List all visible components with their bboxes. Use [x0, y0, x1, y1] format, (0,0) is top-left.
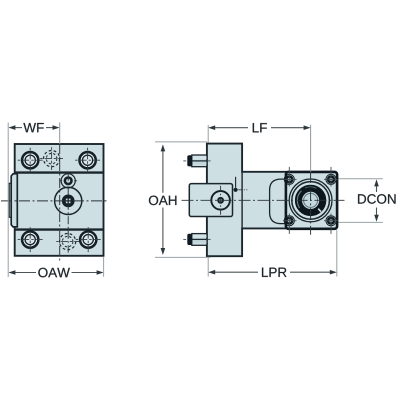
left rail tab (main): [11, 174, 17, 227]
boss axis centerline: [67, 173, 69, 253]
phantom hole bottom-center (dashed): [56, 234, 79, 250]
clamp block: [189, 184, 232, 217]
dimension DCON: [339, 179, 396, 223]
dimension OAH: [147, 142, 211, 258]
clamp screw small: [59, 174, 77, 188]
WF extension line (left, shared with OAW): [7, 123, 9, 278]
pin detail: [234, 177, 248, 192]
flange bolt centerlines: [283, 167, 338, 234]
dimension OAW: [8, 257, 103, 278]
coupling bore circles: [289, 179, 332, 222]
bolt hole bottom-left: [18, 227, 43, 252]
bolt hole top-right: [75, 148, 100, 173]
flange bolt top-right: [326, 174, 336, 184]
front view vertical datum centerline: [59, 123, 61, 145]
front view horizontal centerline: [1, 200, 108, 202]
side view horizontal centerline: [182, 199, 345, 201]
dimension WF: [8, 123, 59, 132]
flange bolt bottom-right: [326, 216, 336, 226]
flange bolt bottom-left: [284, 216, 294, 226]
top stud: [187, 155, 207, 167]
capto body rounded end: [270, 179, 287, 224]
bolt hole bottom-right: [76, 227, 101, 252]
bottom stud: [187, 234, 207, 246]
dimension LF: [208, 123, 310, 142]
bottom stud centerline: [183, 238, 210, 240]
clamp hole: [211, 186, 230, 215]
flange bolt top-left: [284, 174, 294, 184]
plate right edge line: [241, 172, 243, 229]
central boss screw: [55, 187, 82, 214]
side view silhouette plate+slab: [207, 144, 287, 257]
phantom hole top-center (dashed): [40, 147, 63, 170]
flange plate: [286, 172, 337, 229]
dimension LPR: [208, 230, 337, 277]
left rail tab (outer small): [9, 183, 12, 217]
front view body block: [15, 144, 104, 256]
bolt hole top-left: [18, 148, 43, 173]
spindle axis vertical centerline: [310, 125, 312, 172]
top stud centerline: [183, 160, 210, 162]
